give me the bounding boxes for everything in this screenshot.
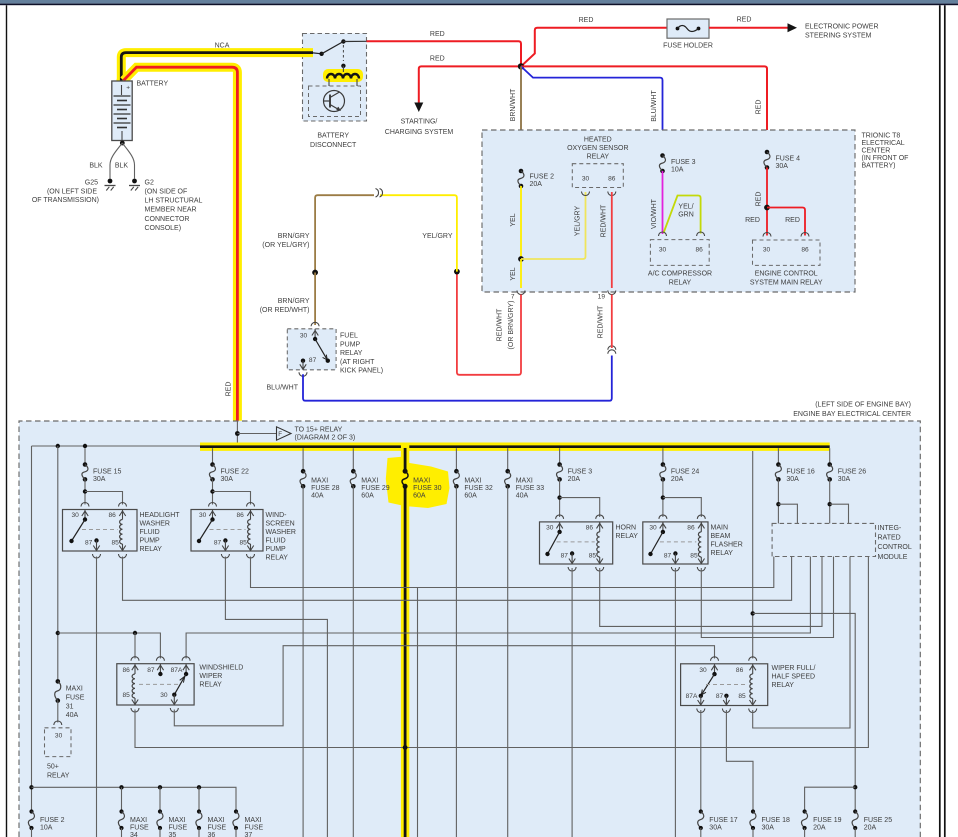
svg-text:30: 30 <box>546 524 554 531</box>
svg-text:MAIN: MAIN <box>711 524 729 531</box>
svg-text:KICK PANEL): KICK PANEL) <box>340 368 383 375</box>
svg-text:30A: 30A <box>776 163 789 170</box>
wiper full/half speed relay box <box>681 664 768 706</box>
svg-text:G2: G2 <box>145 180 154 187</box>
fuse holder <box>667 19 709 38</box>
wire bottom fuse feed <box>32 787 237 811</box>
wire RED/WHT (OR BRN/GRY) pin 7 to yel/gry junction <box>457 272 521 375</box>
svg-text:20A: 20A <box>671 476 684 483</box>
svg-text:FUSE 15: FUSE 15 <box>93 468 122 475</box>
svg-text:FUSE: FUSE <box>130 825 149 832</box>
fuse FUSE 16 <box>777 448 779 464</box>
svg-text:CONNECTOR: CONNECTOR <box>145 216 190 223</box>
svg-text:RELAY: RELAY <box>47 773 70 780</box>
fuse FUSE 25 20A bottom row <box>853 809 857 813</box>
svg-text:WASHER: WASHER <box>266 529 296 536</box>
svg-text:(ON LEFT SIDE: (ON LEFT SIDE <box>47 188 97 195</box>
svg-text:F: F <box>278 431 282 438</box>
fuse MAXI FUSE bottom row <box>234 809 238 813</box>
relay K1 headlight washer fluid pump relay <box>84 479 86 504</box>
battery B+ <box>112 81 132 141</box>
svg-text:RATED: RATED <box>878 535 901 542</box>
svg-text:+: + <box>126 85 130 92</box>
fuse MAXI <box>455 448 457 471</box>
svg-text:RED/WHT: RED/WHT <box>600 204 607 237</box>
svg-text:FUSE: FUSE <box>245 825 264 832</box>
wire main beam 85 to ICM pin5 <box>701 557 833 638</box>
highlight blob on MAXI FUSE 30 label <box>386 457 450 509</box>
svg-text:(ON SIDE OF: (ON SIDE OF <box>145 188 188 195</box>
svg-text:RED: RED <box>745 217 760 224</box>
wire maxi fuse 33 output <box>507 486 509 837</box>
svg-text:87: 87 <box>309 357 317 364</box>
svg-text:FUSE 17: FUSE 17 <box>709 817 738 824</box>
svg-text:BATTERY: BATTERY <box>317 133 349 140</box>
svg-text:85: 85 <box>240 540 248 547</box>
fuse FUSE 2 10A bottom row <box>29 809 33 813</box>
relay K3 horn relay <box>559 479 561 517</box>
wire horn 85 to ICM pin4 <box>600 557 822 627</box>
svg-text:CENTER: CENTER <box>862 148 891 155</box>
svg-text:MAXI: MAXI <box>413 477 430 484</box>
pin 19 connector <box>608 291 616 295</box>
svg-text:RED: RED <box>737 17 752 24</box>
svg-text:FUEL: FUEL <box>340 333 358 340</box>
svg-text:85: 85 <box>112 540 120 547</box>
svg-text:ENGINE BAY ELECTRICAL CENTER: ENGINE BAY ELECTRICAL CENTER <box>793 411 911 418</box>
svg-text:RELAY: RELAY <box>266 555 289 562</box>
heated oxygen sensor relay box <box>572 164 623 188</box>
svg-text:MEMBER NEAR: MEMBER NEAR <box>145 207 197 214</box>
svg-text:87: 87 <box>664 553 672 560</box>
svg-text:FUSE 22: FUSE 22 <box>221 468 250 475</box>
wire bus to wiper full/half relay 86 <box>752 451 754 659</box>
wire wiper 87A to ICM pin3 <box>186 557 810 659</box>
svg-text:85: 85 <box>690 553 698 560</box>
svg-text:BLK: BLK <box>115 163 129 170</box>
svg-text:TO 15+ RELAY: TO 15+ RELAY <box>295 427 343 434</box>
wire BLU/WHT junction to fuse 3 <box>521 66 663 155</box>
svg-text:(OR YEL/GRY): (OR YEL/GRY) <box>262 242 309 249</box>
node bus-ext maxi31 <box>56 444 60 448</box>
svg-text:34: 34 <box>130 832 138 837</box>
maxi fuse 31 40A <box>56 679 61 684</box>
svg-text:30: 30 <box>72 512 80 519</box>
svg-text:RED/WHT: RED/WHT <box>497 308 504 341</box>
fuse MAXI <box>507 448 509 471</box>
wire VIO/WHT fuse 3 to A/C compressor relay 30 <box>662 171 664 234</box>
svg-text:MAXI: MAXI <box>245 817 262 824</box>
svg-text:FUSE 18: FUSE 18 <box>762 817 791 824</box>
svg-text:FUSE: FUSE <box>169 825 188 832</box>
fuse MAXI FUSE bottom row <box>197 809 201 813</box>
fuse F3 FUSE 3 10A <box>660 153 665 158</box>
svg-text:(OR BRN/GRY): (OR BRN/GRY) <box>508 301 515 350</box>
svg-text:FUSE 28: FUSE 28 <box>311 485 340 492</box>
fuse MAXI <box>403 469 408 474</box>
svg-text:BEAM: BEAM <box>711 533 731 540</box>
fuse 26 output to ICM <box>829 479 831 523</box>
svg-text:FUSE 3: FUSE 3 <box>568 468 593 475</box>
svg-text:MAXI: MAXI <box>516 477 533 484</box>
svg-text:30A: 30A <box>221 476 234 483</box>
svg-text:87A: 87A <box>686 693 698 700</box>
svg-text:30: 30 <box>699 667 707 674</box>
wire NCA battery to disconnect (yellow highlighted black) <box>121 53 313 84</box>
wire RED/WHT relay 86 to pin 19 <box>611 192 613 288</box>
wire maxi fuse 32 output <box>455 486 457 837</box>
wire BRN/GRY (OR YEL/GRY) splice to fuel pump relay <box>315 195 374 272</box>
svg-text:FUSE 3: FUSE 3 <box>671 159 696 166</box>
svg-text:WIPER FULL/: WIPER FULL/ <box>772 665 816 672</box>
svg-text:FUSE 24: FUSE 24 <box>671 468 700 475</box>
wire RED to engine control relay 86 <box>767 208 805 236</box>
wire bus extension left <box>32 445 201 447</box>
svg-text:SYSTEM MAIN RELAY: SYSTEM MAIN RELAY <box>750 279 823 286</box>
svg-text:OXYGEN SENSOR: OXYGEN SENSOR <box>567 145 628 152</box>
svg-text:YEL: YEL <box>510 213 517 226</box>
svg-text:31: 31 <box>66 703 74 710</box>
fuse FUSE 3 <box>559 448 561 464</box>
svg-text:YEL/: YEL/ <box>678 204 693 211</box>
fuse MAXI <box>302 448 304 471</box>
svg-text:MAXI: MAXI <box>208 817 225 824</box>
svg-text:(AT RIGHT: (AT RIGHT <box>340 359 375 366</box>
svg-text:20A: 20A <box>864 825 877 832</box>
node fuse19/25 feed <box>853 785 857 789</box>
svg-text:40A: 40A <box>66 712 79 719</box>
svg-text:40A: 40A <box>311 493 324 500</box>
svg-text:20A: 20A <box>568 476 581 483</box>
svg-text:BRN/GRY: BRN/GRY <box>278 298 310 305</box>
wire maxi fuse 29 output <box>352 486 354 837</box>
svg-text:30A: 30A <box>838 476 851 483</box>
fuse FUSE 15 <box>84 448 86 464</box>
svg-text:LH STRUCTURAL: LH STRUCTURAL <box>145 198 203 205</box>
fuse FUSE 26 <box>829 448 831 464</box>
node RED split <box>764 205 770 211</box>
svg-text:35: 35 <box>169 832 177 837</box>
relay K4 main beam flasher relay <box>662 479 664 517</box>
svg-text:FLASHER: FLASHER <box>711 541 743 548</box>
svg-text:RED/WHT: RED/WHT <box>597 305 604 338</box>
svg-text:FUSE 26: FUSE 26 <box>838 468 867 475</box>
battery disconnect transistor sub-box <box>309 86 361 117</box>
fuse FUSE 24 <box>662 448 664 464</box>
wire feed into box <box>236 421 238 445</box>
wire horn 87 output <box>571 568 573 837</box>
svg-text:BRN/WHT: BRN/WHT <box>510 88 517 121</box>
in-line connector red/wht to blu/wht <box>608 346 616 350</box>
wire wfh 85 to ICM pin6 <box>753 557 850 729</box>
wire RED junction to fuse holder <box>521 28 667 67</box>
fuse F4 FUSE 4 30A <box>765 150 770 155</box>
svg-text:RED: RED <box>430 56 445 63</box>
wire BRN/WHT junction to fuse 2 <box>520 66 522 171</box>
svg-text:86: 86 <box>109 512 117 519</box>
pin 7 connector <box>517 291 525 295</box>
svg-text:BATTERY): BATTERY) <box>862 163 896 170</box>
svg-text:CONSOLE): CONSOLE) <box>145 225 182 232</box>
in-line connector on yel/gry wire <box>376 189 379 198</box>
page right borders <box>939 5 941 837</box>
node wiper feed <box>56 631 60 635</box>
svg-text:20A: 20A <box>813 825 826 832</box>
svg-text:87: 87 <box>716 693 724 700</box>
svg-text:FUSE 16: FUSE 16 <box>786 468 815 475</box>
svg-text:FUSE 32: FUSE 32 <box>464 485 493 492</box>
fuse FUSE 19 20A bottom row <box>803 809 807 813</box>
wire left trunk <box>31 446 33 812</box>
wire wfh 85/86 tie to fuses 19/25 <box>753 613 856 811</box>
fuel pump relay box <box>287 329 336 370</box>
svg-text:RED: RED <box>756 192 763 207</box>
node YEL/GRY junction <box>454 269 460 275</box>
svg-text:ELECTRICAL: ELECTRICAL <box>862 140 905 147</box>
wire maxi31 column <box>57 446 59 681</box>
svg-text:60A: 60A <box>361 493 374 500</box>
svg-text:YEL/GRY: YEL/GRY <box>422 233 453 240</box>
svg-text:(LEFT SIDE OF ENGINE BAY): (LEFT SIDE OF ENGINE BAY) <box>815 402 911 409</box>
svg-text:RELAY: RELAY <box>711 550 734 557</box>
svg-text:BLK: BLK <box>89 163 103 170</box>
svg-text:30: 30 <box>55 733 63 740</box>
svg-text:STARTING/: STARTING/ <box>401 119 438 126</box>
wire headlight 87 output <box>96 557 98 837</box>
svg-text:30A: 30A <box>93 476 106 483</box>
svg-text:37: 37 <box>245 832 253 837</box>
svg-text:30A: 30A <box>786 476 799 483</box>
svg-text:MAXI: MAXI <box>464 477 481 484</box>
svg-text:WIND-: WIND- <box>266 512 288 519</box>
A/C compressor relay box <box>650 240 709 266</box>
svg-text:WINDSHIELD: WINDSHIELD <box>199 665 243 672</box>
wire windscreen 85 to ICM pin1 <box>251 557 774 588</box>
wire YEL junction to pin 7 <box>520 259 522 288</box>
wire RED battery feed to engine bay (yellow highlighted red) <box>124 67 238 421</box>
node feed junction <box>235 431 240 436</box>
svg-text:30: 30 <box>763 247 771 254</box>
svg-text:MAXI: MAXI <box>130 817 147 824</box>
node BRN/GRY junction <box>312 270 318 276</box>
svg-text:(IN FRONT OF: (IN FRONT OF <box>862 155 909 162</box>
svg-text:FLUID: FLUID <box>140 529 160 536</box>
svg-text:G25: G25 <box>85 180 98 187</box>
svg-text:CHARGING SYSTEM: CHARGING SYSTEM <box>385 129 454 136</box>
svg-text:TRIONIC T8: TRIONIC T8 <box>862 133 901 140</box>
svg-text:(OR RED/WHT): (OR RED/WHT) <box>260 307 310 314</box>
svg-text:FUSE 29: FUSE 29 <box>361 485 390 492</box>
svg-text:30A: 30A <box>709 825 722 832</box>
svg-text:MAXI: MAXI <box>169 817 186 824</box>
svg-text:RED: RED <box>785 217 800 224</box>
page left border <box>6 5 8 837</box>
svg-text:SCREEN: SCREEN <box>266 521 295 528</box>
svg-text:YEL: YEL <box>510 267 517 280</box>
svg-text:86: 86 <box>801 247 809 254</box>
svg-text:85: 85 <box>589 553 597 560</box>
svg-text:86: 86 <box>123 667 131 674</box>
fuse FUSE 22 <box>212 448 214 464</box>
engine bay electrical center box <box>19 421 920 837</box>
wire wiper 86/87 feed <box>58 633 161 659</box>
wire MAXI FUSE 30 output thick highlighted <box>401 443 409 837</box>
svg-text:RELAY: RELAY <box>199 682 222 689</box>
wire YEL/GRN jumper to A/C compressor relay 86 <box>664 196 701 234</box>
svg-text:87A: 87A <box>171 667 183 674</box>
svg-text:BATTERY: BATTERY <box>137 81 169 88</box>
svg-text:87: 87 <box>214 540 222 547</box>
wire YEL fuse 2 down <box>520 186 522 259</box>
svg-text:30: 30 <box>659 247 667 254</box>
svg-text:FUSE HOLDER: FUSE HOLDER <box>663 43 713 50</box>
svg-text:7: 7 <box>511 294 515 301</box>
svg-text:ENGINE CONTROL: ENGINE CONTROL <box>755 271 818 278</box>
node wfh86 tie <box>751 611 755 615</box>
fuse MAXI <box>352 448 354 471</box>
wire unnamed vertical right of maxi 30 <box>417 588 419 837</box>
fuse FUSE 17 30A bottom row <box>699 809 703 813</box>
wire RED fuse holder to EPS arrow <box>709 27 788 29</box>
ground G25 <box>108 179 113 184</box>
wire main beam 87 output <box>674 568 676 837</box>
svg-text:ELECTRONIC POWER: ELECTRONIC POWER <box>805 23 879 30</box>
svg-text:FUSE: FUSE <box>208 825 227 832</box>
wire YEL/GRY to heated oxygen sensor relay 30 <box>521 192 586 259</box>
wire headlight 85 to ICM pin2 <box>123 557 792 601</box>
svg-text:RED: RED <box>756 100 763 115</box>
svg-text:HEATED: HEATED <box>584 137 612 144</box>
svg-text:86: 86 <box>736 667 744 674</box>
svg-text:FLUID: FLUID <box>266 538 286 545</box>
svg-text:PUMP: PUMP <box>140 538 161 545</box>
wire YEL/GRY up and to splice <box>380 195 457 271</box>
svg-text:87: 87 <box>147 667 155 674</box>
wire RED/WHT pin 19 down to splice <box>611 295 613 349</box>
svg-text:86: 86 <box>586 524 594 531</box>
svg-text:30: 30 <box>160 692 168 699</box>
svg-text:STEERING SYSTEM: STEERING SYSTEM <box>805 33 872 40</box>
svg-text:HORN: HORN <box>616 524 637 531</box>
svg-text:HEADLIGHT: HEADLIGHT <box>140 512 181 519</box>
svg-text:RELAY: RELAY <box>669 279 692 286</box>
svg-text:GRN: GRN <box>678 212 694 219</box>
svg-text:20A: 20A <box>530 181 543 188</box>
wire BLK battery to grounds <box>120 141 125 146</box>
wire wiper 30 to wfh 30 <box>174 646 714 726</box>
svg-text:60A: 60A <box>413 493 426 500</box>
node thick line tap <box>403 745 408 750</box>
svg-text:WASHER: WASHER <box>140 521 170 528</box>
svg-text:FUSE: FUSE <box>66 694 85 701</box>
node bus-ext fuse15 <box>83 444 87 448</box>
svg-text:RED: RED <box>226 382 233 397</box>
fuse 16 output to ICM <box>777 479 779 523</box>
wire RED junction to starting/charging system <box>419 66 521 103</box>
svg-text:RELAY: RELAY <box>772 682 795 689</box>
wire wfh 87 to fuse 18 <box>726 710 753 812</box>
svg-text:FUSE 25: FUSE 25 <box>864 817 893 824</box>
svg-text:OF TRANSMISSION): OF TRANSMISSION) <box>32 197 99 204</box>
node wiper86 tap <box>133 631 137 635</box>
flag TO 15+ RELAY <box>237 433 276 435</box>
svg-text:86: 86 <box>608 176 616 183</box>
svg-text:87: 87 <box>85 540 93 547</box>
svg-text:CONTROL: CONTROL <box>878 544 912 551</box>
ground G2 <box>132 179 137 184</box>
fuse F2 FUSE 2 20A <box>519 169 524 174</box>
fuse MAXI FUSE bottom row <box>158 809 162 813</box>
windshield wiper relay box <box>117 664 194 705</box>
svg-text:DISCONNECT: DISCONNECT <box>310 142 357 149</box>
svg-text:50+: 50+ <box>47 764 59 771</box>
wire BRN/GRY (OR RED/WHT) down to relay 30 <box>314 273 316 326</box>
svg-text:60A: 60A <box>464 493 477 500</box>
svg-text:INTEG-: INTEG- <box>878 525 902 532</box>
svg-text:FUSE 33: FUSE 33 <box>516 485 545 492</box>
wire RED disconnect to junction <box>367 41 522 66</box>
svg-text:NCA: NCA <box>215 43 230 50</box>
svg-text:BRN/GRY: BRN/GRY <box>278 233 310 240</box>
svg-text:BLU/WHT: BLU/WHT <box>267 385 299 392</box>
svg-text:FUSE 19: FUSE 19 <box>813 817 842 824</box>
junction node main RED splice <box>518 63 524 69</box>
svg-text:WIPER: WIPER <box>199 673 222 680</box>
relay K2 windscreen washer fluid pump relay <box>212 479 214 504</box>
integrated control module box <box>772 523 875 556</box>
fuse FUSE 18 30A bottom row <box>751 809 755 813</box>
svg-text:RELAY: RELAY <box>140 546 163 553</box>
svg-text:MAXI: MAXI <box>66 686 83 693</box>
svg-text:86: 86 <box>696 247 704 254</box>
svg-text:85: 85 <box>123 692 131 699</box>
wire windscreen 87 output <box>225 557 327 837</box>
svg-text:MODULE: MODULE <box>878 554 908 561</box>
svg-text:86: 86 <box>237 512 245 519</box>
svg-text:YEL/GRY: YEL/GRY <box>575 206 582 237</box>
svg-text:10A: 10A <box>40 825 53 832</box>
arrow to electronic power steering <box>788 23 798 32</box>
svg-text:A/C COMPRESSOR: A/C COMPRESSOR <box>648 271 712 278</box>
svg-text:30: 30 <box>649 524 657 531</box>
svg-text:85: 85 <box>738 693 746 700</box>
svg-text:FUSE 2: FUSE 2 <box>530 174 555 181</box>
svg-text:30A: 30A <box>762 825 775 832</box>
window top bar <box>0 0 958 4</box>
svg-text:FUSE 30: FUSE 30 <box>413 485 442 492</box>
svg-text:30: 30 <box>199 512 207 519</box>
bus B+ yellow highlighted black <box>200 443 830 451</box>
svg-text:VIO/WHT: VIO/WHT <box>651 198 658 229</box>
svg-text:RED: RED <box>430 31 445 38</box>
svg-text:86: 86 <box>687 524 695 531</box>
svg-text:(DIAGRAM 2 OF 3): (DIAGRAM 2 OF 3) <box>295 435 356 442</box>
svg-text:BLU/WHT: BLU/WHT <box>651 90 658 122</box>
svg-text:MAXI: MAXI <box>311 477 328 484</box>
wire BLU/WHT fuel pump relay to pin 19 wire <box>303 356 612 401</box>
svg-text:19: 19 <box>598 294 606 301</box>
svg-text:87: 87 <box>561 553 569 560</box>
wire RED junction to fuse 4 <box>521 66 767 152</box>
wire maxi fuse 28 output <box>302 486 304 837</box>
svg-text:30: 30 <box>300 333 308 340</box>
wire wiper 85 long line to ICM right pin <box>135 557 868 748</box>
svg-text:MAXI: MAXI <box>361 477 378 484</box>
battery disconnect box <box>303 34 367 122</box>
fuse MAXI FUSE bottom row <box>119 809 123 813</box>
svg-text:36: 36 <box>208 832 216 837</box>
svg-text:40A: 40A <box>516 493 529 500</box>
